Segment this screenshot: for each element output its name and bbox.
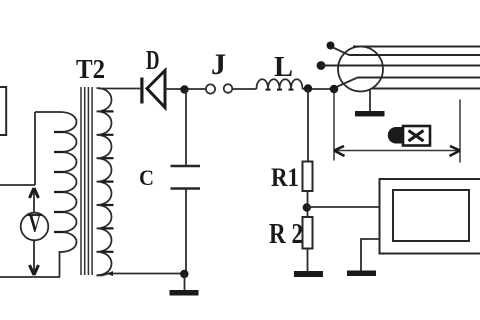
wire (diode to contact J) <box>165 88 206 90</box>
wire (left input to voltmeter top node) <box>0 184 35 186</box>
tube terminal dot A <box>327 42 335 50</box>
detector indicator box <box>403 126 430 146</box>
wire (secondary bottom lead) <box>97 274 187 276</box>
transformer T2 core <box>81 87 92 275</box>
ground (oscilloscope) <box>347 271 376 277</box>
small hook arrow at secondary bottom lead <box>107 271 114 276</box>
transformer T2 secondary winding <box>97 88 112 275</box>
wire (dot A diagonal lead) <box>333 48 349 55</box>
wire (contact J to inductor L) <box>233 88 257 90</box>
contact J circles <box>206 84 215 93</box>
wire (divider node to oscilloscope) <box>308 206 380 208</box>
tube terminal dot B <box>317 61 326 70</box>
dimension arrow line <box>334 150 460 152</box>
lecher line 2 <box>349 54 480 56</box>
resistor R1 body <box>303 162 313 192</box>
node (diode / capacitor junction) <box>180 85 188 93</box>
svg-text:T2: T2 <box>76 54 105 84</box>
wire (primary top lead) <box>35 111 60 113</box>
wire (vertical from primary top lead down to node) <box>34 112 36 185</box>
ground (below R2) <box>294 249 323 278</box>
svg-text:J: J <box>211 48 226 81</box>
lecher line 5 <box>372 88 480 90</box>
svg-text:V: V <box>29 211 42 238</box>
wire (bottom left rail) <box>0 276 60 278</box>
wire (junction down to R1) <box>307 89 309 162</box>
diode D cathode bar <box>140 78 143 104</box>
lecher line 3 <box>321 65 480 67</box>
wire (junction down to capacitor) <box>185 90 187 167</box>
wire (inductor L to tube node) <box>303 88 335 90</box>
diode D triangle <box>147 71 165 108</box>
wire (secondary top lead to diode) <box>99 88 140 90</box>
wire (primary bottom lead) <box>59 251 61 277</box>
tube terminal dot C <box>330 85 339 94</box>
detector X mark <box>409 131 424 142</box>
lecher line 4 <box>358 77 480 79</box>
source block (partial rectangle at left edge) <box>0 87 6 135</box>
dimension arrowhead left <box>334 146 345 156</box>
wire (oscilloscope ground lead) <box>361 239 380 271</box>
dimension arrowhead right <box>450 146 461 156</box>
node (bottom junction) <box>180 270 188 278</box>
svg-text:R 2: R 2 <box>269 219 303 250</box>
wire (R1 to R2 through divider node) <box>307 191 309 217</box>
wire (dot C diagonal lead) <box>337 78 358 88</box>
primary winding junction hooks <box>54 132 64 232</box>
svg-text:R1: R1 <box>271 163 299 192</box>
secondary winding junction hooks <box>102 111 114 251</box>
transformer T2 primary winding <box>60 112 77 252</box>
wire (capacitor down to bottom node) <box>185 190 187 274</box>
lecher line 1 <box>353 46 480 48</box>
inductor L bumps <box>257 79 303 89</box>
svg-text:C: C <box>139 165 154 190</box>
resistor R2 body <box>303 217 313 249</box>
node (L / R1 junction) <box>304 84 312 92</box>
node (R1/R2 divider junction) <box>303 203 311 211</box>
detector probe capsule <box>388 127 404 144</box>
tube envelope circle <box>338 47 383 92</box>
svg-text:L: L <box>274 51 293 83</box>
svg-text:D: D <box>146 45 160 75</box>
oscilloscope outer case <box>380 179 480 254</box>
dimension boundary right <box>459 100 461 163</box>
ground (below capacitor) <box>170 274 199 296</box>
capacitor C plates <box>171 165 201 167</box>
inductor L junction hooks <box>266 89 294 91</box>
dimension boundary left <box>333 93 335 161</box>
voltmeter V1 arrows and circle <box>21 188 49 275</box>
oscilloscope screen <box>393 190 469 241</box>
ground (tube) <box>355 90 385 117</box>
